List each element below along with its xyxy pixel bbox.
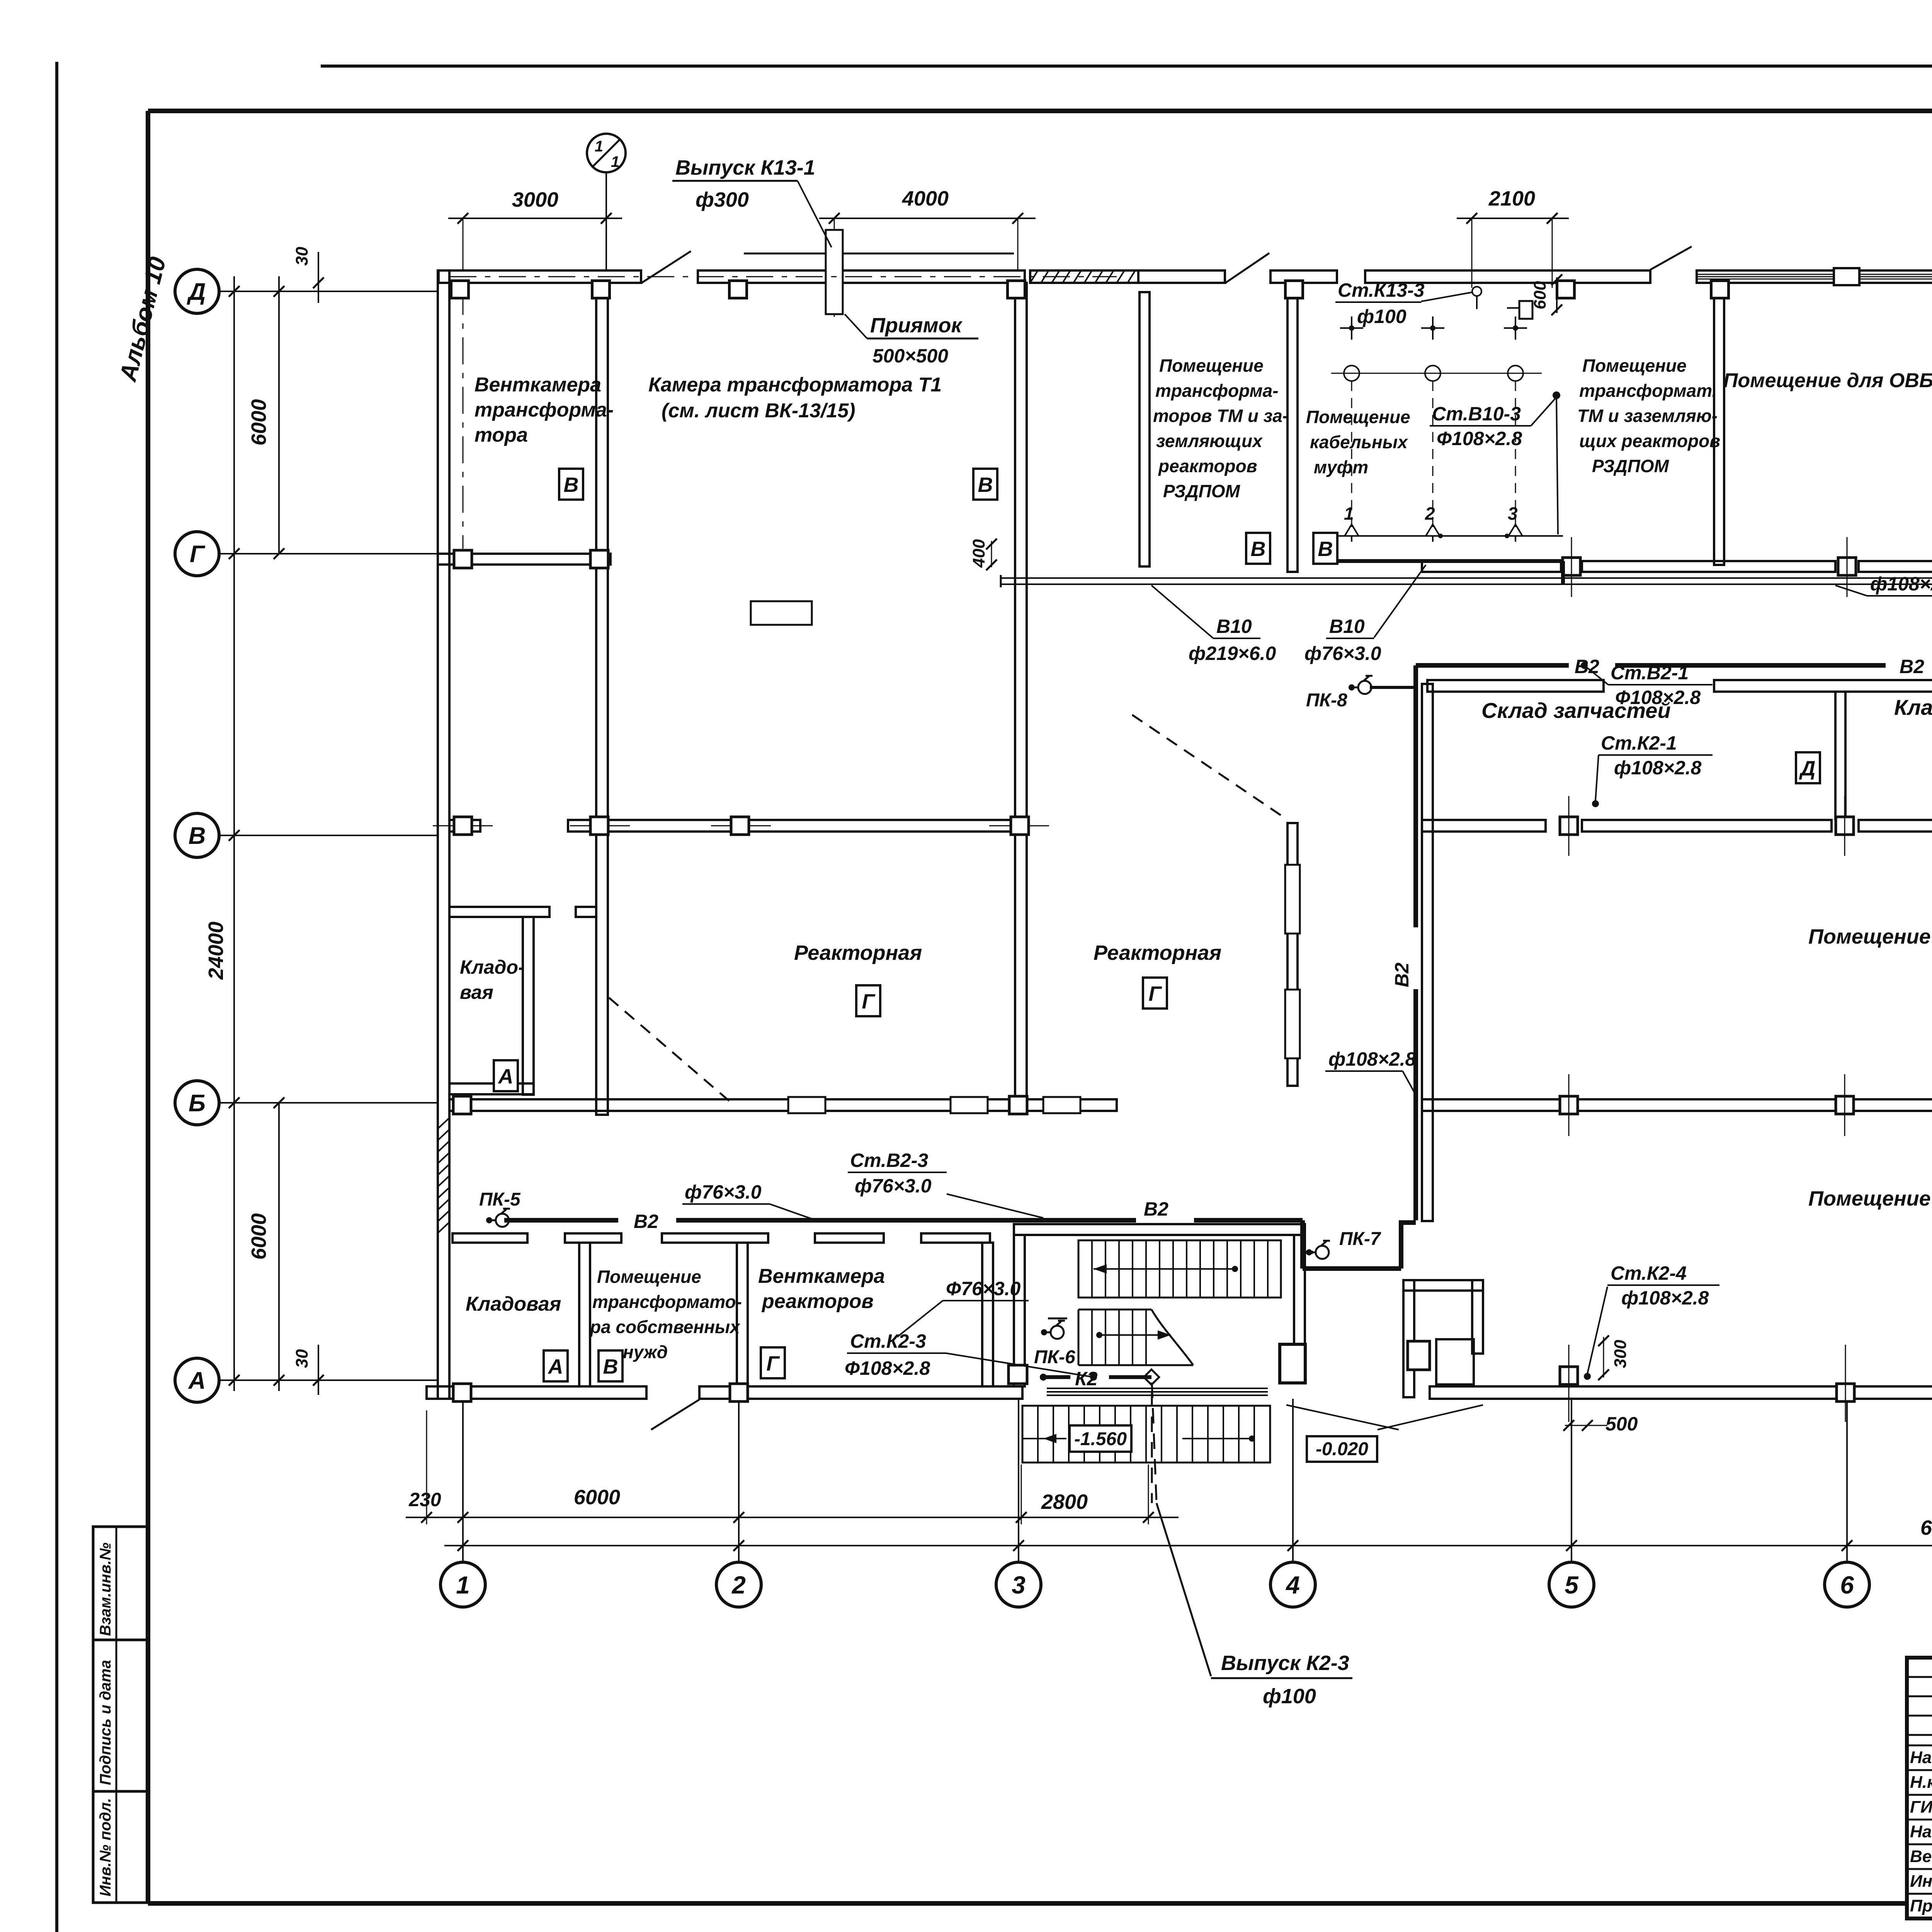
structure mark В (V4): [1313, 533, 1337, 564]
pipe label V2 d: [634, 1211, 658, 1232]
svg-text:Реакторная: Реакторная: [794, 941, 922, 964]
svg-text:2: 2: [731, 1571, 746, 1599]
svg-text:Ст.В2-1: Ст.В2-1: [1611, 662, 1689, 684]
svg-text:ф76×3.0: ф76×3.0: [685, 1181, 762, 1203]
svg-text:Инв.№ подл.: Инв.№ подл.: [97, 1798, 114, 1896]
stamp box Vzam.inv.N: [93, 1527, 148, 1640]
stamp box Inv.N podl: [93, 1791, 148, 1903]
stair column left: [1009, 1365, 1027, 1384]
structure mark В (V2): [973, 469, 997, 500]
room label Sklad zapchastey: [1481, 698, 1671, 723]
pipe V2 vertical: [1413, 665, 1418, 1220]
exterior wall left (axis 1): [438, 270, 449, 1399]
svg-text:тора: тора: [474, 424, 528, 446]
hatch on left wall: [438, 1118, 449, 1233]
svg-text:66000: 66000: [1920, 1516, 1932, 1539]
svg-text:Г: Г: [190, 541, 206, 568]
svg-text:Провер.: Провер.: [1910, 1896, 1932, 1915]
svg-text:Кладовая: Кладовая: [1894, 695, 1932, 719]
svg-text:Г: Г: [766, 1352, 780, 1375]
exterior wall axis A segment 3: [1430, 1386, 1932, 1399]
cable room circles row: [1331, 366, 1542, 381]
level mark -0.020: [1307, 1436, 1377, 1462]
svg-text:6000: 6000: [247, 1213, 270, 1260]
svg-text:Венткамера: Венткамера: [474, 374, 601, 396]
riser drop lines cable room: [1352, 381, 1515, 529]
svg-text:Вед.инж: Вед.инж: [1910, 1847, 1932, 1866]
svg-text:Выпуск К13-1: Выпуск К13-1: [675, 156, 815, 179]
partition wall x3345 upper: [1287, 286, 1298, 572]
entrance centre dashed line: [1151, 1391, 1153, 1503]
axis D dash-dot line: [449, 276, 1117, 277]
svg-text:1: 1: [611, 153, 619, 170]
svg-text:Н.контр.: Н.контр.: [1910, 1773, 1932, 1792]
pipe V2 main horizontal: [1416, 663, 1932, 668]
room label Reaktornaya 2: [1094, 941, 1221, 964]
axis circle Г: [175, 532, 438, 576]
valve 3: [1505, 503, 1522, 542]
entrance steps outside: [1022, 1406, 1270, 1463]
extension lines top dims: [463, 218, 1552, 317]
entrance lobby walls: [1403, 1280, 1483, 1397]
dim label 30 top: [293, 247, 324, 303]
exterior wall axis A segment 1: [427, 1386, 646, 1399]
svg-text:Г: Г: [862, 990, 876, 1013]
svg-text:Приямок: Приямок: [870, 314, 963, 337]
label F76x3.0 stair: [897, 1278, 1029, 1337]
axis circle 2: [716, 1399, 761, 1607]
room label Pomeshchenie transformat RZDPOM mid: [1577, 355, 1720, 476]
wall axis V right segments: [1422, 820, 1932, 832]
svg-text:трансформат.: трансформат.: [1579, 381, 1717, 401]
left dimension chain inner line: [274, 276, 284, 1391]
wall lines under stairs: [1047, 1388, 1268, 1395]
svg-text:Ст.К2-4: Ст.К2-4: [1611, 1262, 1687, 1284]
svg-text:Г: Г: [1148, 982, 1162, 1005]
sheet outer top edge line: [321, 65, 1932, 68]
svg-text:В: В: [564, 473, 579, 497]
riser St.K2-3 label: [845, 1330, 1097, 1381]
column centrelines right part: [1569, 537, 1932, 1422]
bottom room partition x1925: [737, 1243, 748, 1386]
axis circle 1: [440, 1399, 485, 1607]
stair enclosure right wall: [1294, 1235, 1305, 1344]
svg-text:реакторов: реакторов: [1158, 456, 1257, 476]
svg-text:Б: Б: [189, 1090, 206, 1117]
title block names column: [1910, 1742, 1932, 1915]
label V10 f76x3.0: [1304, 565, 1426, 664]
exterior wall axis A segment 2: [699, 1386, 1022, 1399]
svg-text:ф108×2.8: ф108×2.8: [1870, 573, 1932, 595]
svg-text:5: 5: [1565, 1571, 1579, 1599]
wall axis B right part: [1422, 1099, 1932, 1111]
label Vypusk K2-3: [1221, 1651, 1349, 1675]
structure mark В (V1): [559, 469, 583, 500]
svg-text:2100: 2100: [1488, 187, 1535, 210]
svg-text:2: 2: [1425, 503, 1435, 524]
label Vypusk K13-1: [672, 156, 832, 247]
wall axis V left part: [449, 820, 1028, 832]
svg-text:ф76×3.0: ф76×3.0: [855, 1175, 932, 1197]
storeroom right wall: [523, 917, 534, 1095]
svg-text:Помещение: Помещение: [1159, 355, 1264, 376]
structure mark В (V6): [599, 1350, 622, 1381]
dim 600 vertical: [1531, 274, 1562, 315]
svg-text:-1.560: -1.560: [1074, 1429, 1127, 1449]
label f108x2.8 mid: [1835, 573, 1932, 596]
svg-text:500×500: 500×500: [872, 345, 948, 367]
svg-text:РЗДПОМ: РЗДПОМ: [1163, 481, 1241, 501]
structure mark А (A2): [544, 1350, 568, 1381]
door leaf diagonal top wall 3: [1650, 247, 1692, 270]
dim 300 vertical: [1598, 1335, 1630, 1380]
canopy line above wall: [744, 253, 1014, 255]
label Priyamok: [845, 314, 978, 367]
svg-text:ТМ и заземляю-: ТМ и заземляю-: [1577, 406, 1718, 426]
room label ZRU lower: [1808, 1187, 1932, 1210]
room label Klado-vaya upper: [460, 956, 525, 1003]
pipe label K2: [1075, 1368, 1098, 1389]
equipment pad in transformer cell T1: [751, 601, 812, 625]
structure mark В (V3): [1246, 533, 1270, 564]
pipe V2 bottom horizontal: [504, 1218, 1303, 1223]
svg-text:Помещение ЗРУ10(6)кВ: Помещение ЗРУ10(6)кВ: [1808, 925, 1932, 948]
partition wall x4762: [1835, 692, 1845, 819]
svg-text:Склад запчастей: Склад запчастей: [1481, 698, 1671, 723]
svg-text:Ст.К2-3: Ст.К2-3: [850, 1330, 926, 1352]
partition wall x2960 vertical: [1139, 292, 1150, 566]
svg-text:500: 500: [1605, 1413, 1638, 1435]
pipe V10 along axis G: [1001, 575, 1932, 587]
svg-text:Ст.К13-3: Ст.К13-3: [1338, 279, 1425, 301]
dashed door swing reactor room 2: [1132, 715, 1282, 816]
svg-text:В2: В2: [1900, 656, 1924, 677]
svg-text:муфт: муфт: [1314, 457, 1368, 477]
stair flight upper: [1078, 1240, 1281, 1298]
svg-text:Помещение для ОВБ: Помещение для ОВБ: [1723, 369, 1932, 392]
partition wall x3345 lower with windows: [1285, 823, 1300, 1086]
hatched wall segment axis D: [1030, 270, 1138, 283]
svg-text:реакторов: реакторов: [761, 1290, 874, 1313]
manifold thick pipe V10: [1329, 561, 1563, 584]
svg-text:трансформато-: трансформато-: [592, 1292, 742, 1312]
louvered exterior wall axis D: [1697, 268, 1932, 285]
svg-text:В2: В2: [1391, 963, 1413, 987]
left dimension chain outer line: [229, 276, 240, 1391]
dim label 30 bottom: [293, 1345, 324, 1395]
svg-text:А: А: [498, 1065, 514, 1088]
svg-text:ПК-6: ПК-6: [1034, 1347, 1075, 1367]
svg-text:Помещение ЗРУ10(6)кВ: Помещение ЗРУ10(6)кВ: [1808, 1187, 1932, 1210]
svg-text:Ст.В10-3: Ст.В10-3: [1432, 403, 1521, 425]
svg-text:Венткамера: Венткамера: [758, 1265, 885, 1287]
partition wall x4448 vertical: [1714, 283, 1724, 565]
hydrant PK-8: [1306, 676, 1416, 711]
label f108x2.8 vertical V2: [1325, 1048, 1416, 1094]
svg-text:ф100: ф100: [1263, 1685, 1316, 1708]
dim label 24000: [204, 922, 228, 980]
svg-text:щих реакторов: щих реакторов: [1579, 431, 1720, 451]
svg-text:6: 6: [1840, 1571, 1854, 1599]
svg-text:3: 3: [1012, 1571, 1026, 1599]
riser St.K2-1 label: [1592, 732, 1713, 807]
room label Ventkamera reaktorov: [758, 1265, 885, 1313]
svg-text:6000: 6000: [574, 1486, 620, 1509]
svg-text:Д: Д: [1799, 757, 1816, 780]
svg-text:Взам.инв.№: Взам.инв.№: [97, 1543, 114, 1636]
room label ZRU upper: [1808, 925, 1932, 948]
bottom room partition x2555: [982, 1243, 993, 1386]
room label Pomeshchenie transformatorov RZDPOM left: [1153, 355, 1288, 501]
hydrant PK-5: [479, 1189, 521, 1227]
svg-text:Инжен.: Инжен.: [1910, 1872, 1932, 1891]
exterior wall axis D segment 2: [698, 270, 1025, 283]
svg-text:(см. лист ВК-13/15): (см. лист ВК-13/15): [662, 400, 855, 422]
svg-text:А: А: [188, 1367, 206, 1394]
dashed door swing storeroom: [609, 998, 729, 1101]
svg-text:Выпуск К2-3: Выпуск К2-3: [1221, 1651, 1349, 1675]
title block top thin rows: [1907, 1677, 1932, 1735]
dim 400 left: [969, 539, 997, 570]
label f100 outlet: [1263, 1685, 1316, 1708]
title block outline: [1907, 1658, 1932, 1918]
svg-text:ф108×2.8: ф108×2.8: [1621, 1287, 1709, 1309]
svg-text:30: 30: [293, 1349, 311, 1368]
svg-text:Помещение: Помещение: [597, 1267, 701, 1287]
svg-text:ф219×6.0: ф219×6.0: [1189, 643, 1276, 664]
title block name rows: [1907, 1745, 1932, 1894]
svg-text:3000: 3000: [512, 188, 558, 211]
svg-text:Ст.К2-1: Ст.К2-1: [1601, 732, 1677, 754]
room label Kladovaya mid: [1894, 695, 1932, 719]
svg-text:-0.020: -0.020: [1316, 1439, 1368, 1459]
svg-text:В: В: [603, 1355, 618, 1378]
svg-text:ф100: ф100: [1357, 306, 1406, 327]
svg-text:В10: В10: [1329, 616, 1365, 637]
pipe label V2 b: [1900, 656, 1924, 677]
svg-text:Ф76×3.0: Ф76×3.0: [946, 1278, 1021, 1299]
cable room manifold line: [1329, 535, 1563, 537]
bottom dimension chain 230/6000/2800: [406, 1512, 1179, 1523]
partition wall axis 3 vertical: [1015, 283, 1027, 1105]
pipe label V2 a: [1575, 656, 1599, 677]
svg-text:Нач.отд: Нач.отд: [1910, 1748, 1932, 1767]
partition wall axis 1/1 vertical: [596, 283, 608, 1115]
svg-text:вая: вая: [460, 981, 493, 1003]
room label Pomeshchenie kabelnykh muft: [1306, 407, 1410, 477]
hydrant PK-7: [1306, 1229, 1381, 1259]
riser St.V2-1 label: [1581, 662, 1713, 708]
svg-text:Ст.В2-3: Ст.В2-3: [850, 1150, 928, 1171]
axis circle В: [175, 813, 438, 857]
svg-text:ПК-7: ПК-7: [1339, 1229, 1381, 1249]
axis circle 4: [1270, 1399, 1315, 1607]
svg-text:ГИП: ГИП: [1910, 1798, 1932, 1816]
svg-text:В10: В10: [1216, 616, 1252, 637]
structure mark Г (G3): [761, 1347, 785, 1378]
svg-text:230: 230: [408, 1489, 441, 1510]
svg-text:ф108×2.8: ф108×2.8: [1614, 757, 1702, 779]
door leaf diagonal top wall 2: [1225, 253, 1269, 283]
svg-text:торов ТМ и за-: торов ТМ и за-: [1153, 406, 1288, 426]
svg-text:1: 1: [1344, 503, 1354, 524]
column axis ticks V row left: [433, 825, 1049, 827]
svg-text:ПК-5: ПК-5: [479, 1189, 521, 1210]
Album 10 rotated note: [114, 254, 171, 384]
bottom rooms top wall segments: [452, 1233, 990, 1243]
svg-text:Ф108×2.8: Ф108×2.8: [845, 1357, 930, 1379]
K2 outlet dashed + leader: [1152, 1383, 1352, 1678]
svg-text:Подпись и дата: Подпись и дата: [97, 1660, 114, 1785]
dim label 230: [408, 1489, 441, 1510]
svg-text:нужд: нужд: [623, 1342, 668, 1362]
label St.V2-3: [848, 1150, 1043, 1218]
svg-text:6000: 6000: [247, 399, 270, 446]
pipe V2 stair loop: [1303, 1220, 1416, 1269]
svg-text:Помещение: Помещение: [1306, 407, 1410, 427]
door leaf bottom wall: [651, 1400, 699, 1430]
partition wall x3694 vertical: [1422, 684, 1433, 1221]
label f76x3.0 small: [682, 1181, 811, 1219]
svg-text:А: А: [548, 1355, 563, 1378]
svg-text:кабельных: кабельных: [1310, 432, 1408, 452]
pipe label V2 vertical: [1391, 963, 1413, 987]
svg-text:ра собственных: ра собственных: [589, 1317, 741, 1337]
room label Pom transformatora sobstv nuzhd: [589, 1267, 742, 1362]
riser St.K2-4 label: [1584, 1262, 1719, 1380]
storeroom top wall: [449, 907, 596, 917]
svg-text:трансформа-: трансформа-: [1155, 381, 1279, 401]
svg-text:земляющих: земляющих: [1156, 431, 1263, 451]
riser St.V10-3 label: [1430, 391, 1560, 534]
exterior wall axis D segment 5: [1365, 270, 1650, 283]
dim label 6000 (D-G): [247, 399, 270, 446]
room label Kladovaya bottom: [466, 1293, 561, 1315]
stair flight middle: [1078, 1310, 1193, 1365]
structure mark Г (G1): [856, 985, 880, 1016]
svg-text:В: В: [1318, 537, 1333, 561]
axis circle 3: [996, 1399, 1041, 1607]
hydrant PK-6: [1034, 1318, 1075, 1367]
structure mark А (A1): [494, 1060, 518, 1091]
structure mark Д (D3): [1796, 752, 1820, 783]
dimension line 66000: [444, 1540, 1932, 1551]
storeroom bottom wall: [449, 1083, 534, 1094]
svg-text:Ф108×2.8: Ф108×2.8: [1437, 428, 1522, 449]
svg-text:4000: 4000: [902, 187, 949, 210]
svg-text:трансформа-: трансформа-: [474, 399, 614, 421]
svg-text:В: В: [1251, 537, 1266, 561]
svg-text:В2: В2: [634, 1211, 658, 1232]
dimension line 2100: [1457, 187, 1569, 224]
svg-text:В: В: [978, 473, 993, 497]
svg-text:Камера трансформатора Т1: Камера трансформатора Т1: [648, 374, 942, 396]
svg-text:Д: Д: [187, 279, 206, 305]
stamp box Podpis i data: [93, 1640, 148, 1791]
columns on wall axis B: [453, 1096, 1932, 1114]
svg-text:Кладовая: Кладовая: [466, 1293, 561, 1315]
svg-text:Помещение: Помещение: [1582, 355, 1687, 376]
svg-text:РЗДПОМ: РЗДПОМ: [1592, 456, 1670, 476]
pipe label V2 e: [1144, 1198, 1168, 1220]
dim label 6000 bottom: [574, 1486, 620, 1509]
svg-text:Нач.гр.: Нач.гр.: [1910, 1822, 1932, 1841]
svg-text:ПК-8: ПК-8: [1306, 690, 1347, 711]
columns on wall axis D: [451, 281, 1932, 298]
dim label 6000 (B-A): [247, 1213, 270, 1260]
stair enclosure top wall: [1014, 1224, 1305, 1235]
structure mark Г (G2): [1143, 978, 1167, 1009]
cable room crosses row: [1340, 316, 1527, 340]
axis 1 dash-dot line: [463, 288, 464, 549]
wall axis G left part: [438, 554, 611, 565]
door leaf diagonal top wall 1: [641, 251, 691, 283]
room label Kamera transformatora T1: [648, 374, 942, 422]
svg-text:3: 3: [1508, 503, 1518, 524]
axis circle А: [175, 1358, 438, 1402]
room label Pomeshchenie dlya OVB: [1723, 369, 1932, 392]
dim label 66000: [1920, 1516, 1932, 1539]
svg-text:ф300: ф300: [696, 188, 749, 211]
dim 500: [1563, 1413, 1638, 1435]
svg-text:30: 30: [293, 247, 311, 265]
dimension line 4000: [819, 187, 1036, 224]
axis circle 5: [1549, 1399, 1594, 1607]
exterior wall axis D segment 3: [1138, 270, 1225, 283]
warehouse row top wall segments: [1427, 680, 1932, 692]
axis circle 1/1: [587, 134, 626, 270]
stair enclosure left wall: [1014, 1235, 1025, 1386]
exterior wall axis D segment 1: [439, 270, 641, 283]
axis circle Б: [175, 1081, 438, 1125]
pipe K2 line: [1040, 1369, 1159, 1385]
valve 2: [1425, 503, 1443, 542]
columns on wall axis V: [454, 817, 1932, 835]
riser St.K13-3 label: [1335, 279, 1532, 327]
dimension line 3000: [448, 188, 622, 224]
valve 1: [1344, 503, 1359, 542]
svg-text:ф108×2.8: ф108×2.8: [1328, 1048, 1416, 1070]
svg-text:1: 1: [456, 1571, 470, 1599]
svg-text:24000: 24000: [204, 922, 228, 980]
entrance door swing: [1286, 1405, 1483, 1430]
room label Reaktornaya 1: [794, 941, 922, 964]
label V10 f219x6.0 left: [1151, 585, 1276, 664]
svg-text:В2: В2: [1144, 1198, 1168, 1220]
svg-text:4: 4: [1285, 1571, 1300, 1599]
dim label 2800: [1041, 1490, 1088, 1514]
axis circle 6: [1825, 1399, 1869, 1607]
exterior wall axis D segment 4: [1270, 270, 1337, 283]
room label Ventkamera transformatora: [474, 374, 614, 446]
svg-text:В: В: [189, 823, 206, 849]
pit Priyamok 500x500: [826, 230, 843, 314]
axis circle Д: [175, 269, 438, 313]
wall axis G right segments: [1422, 561, 1932, 572]
svg-text:400: 400: [969, 539, 988, 568]
stair big column: [1280, 1344, 1305, 1383]
sheet outer left edge line: [55, 62, 58, 1932]
svg-text:ф76×3.0: ф76×3.0: [1304, 643, 1381, 664]
svg-text:1: 1: [595, 138, 603, 155]
level mark -1.560: [1070, 1425, 1131, 1452]
bottom room partition x1510: [579, 1243, 590, 1386]
columns on wall axis A: [453, 1367, 1932, 1401]
svg-text:300: 300: [1611, 1340, 1630, 1368]
columns on wall axis G: [454, 550, 1932, 575]
svg-text:2800: 2800: [1041, 1490, 1088, 1514]
svg-text:Реакторная: Реакторная: [1094, 941, 1221, 964]
